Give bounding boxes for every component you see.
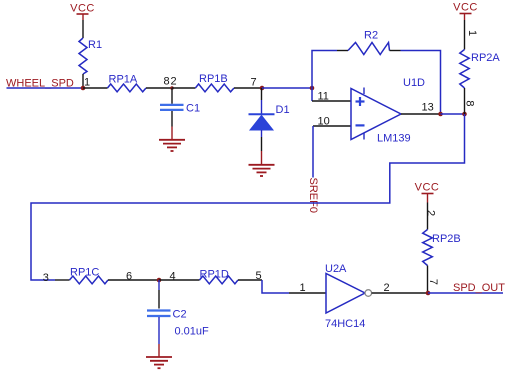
svg-text:R1: R1 [88, 39, 102, 51]
wire node 7 to D1 [261, 88, 263, 114]
wire SPD_OUT [428, 292, 503, 294]
svg-text:10: 10 [318, 116, 330, 128]
wire output to RP2A [441, 113, 465, 115]
ground (D1) [249, 165, 275, 176]
svg-text:VCC: VCC [415, 182, 440, 194]
pin 13 wire [401, 102, 441, 115]
wire C2 to ground [158, 317, 160, 357]
svg-text:U2A: U2A [325, 263, 347, 275]
svg-text:RP1C: RP1C [70, 267, 99, 279]
wire WHEEL_SPD [7, 87, 84, 89]
svg-text:VCC: VCC [70, 3, 95, 15]
svg-text:13: 13 [422, 102, 434, 114]
wire VCC to R1 [82, 20, 84, 38]
wire R2 left leg [312, 51, 337, 102]
wire C1 to ground [171, 111, 173, 140]
pin 2 of RP2B [425, 203, 437, 230]
resistor RP1A [108, 74, 147, 92]
svg-text:RP1D: RP1D [200, 269, 229, 281]
pin 6 wire [108, 271, 159, 283]
resistor RP1C [70, 267, 109, 284]
svg-text:LM139: LM139 [377, 133, 411, 145]
svg-text:4: 4 [170, 271, 176, 283]
ground (C1) [159, 140, 185, 151]
svg-text:74HC14: 74HC14 [325, 318, 365, 330]
pin 7 of RP2B [427, 266, 439, 294]
power VCC (RP2B) [415, 182, 440, 203]
wire D1 to ground [261, 130, 263, 165]
svg-text:RP1B: RP1B [199, 73, 228, 85]
op-amp U1D [351, 77, 425, 145]
svg-text:7: 7 [427, 279, 439, 285]
pin 11 wire [312, 91, 351, 103]
svg-text:SPD_OUT: SPD_OUT [453, 282, 505, 294]
svg-text:C1: C1 [186, 103, 200, 115]
diode D1 [249, 104, 290, 130]
wire step down to inverter input [262, 280, 289, 293]
resistor RP2A [460, 50, 501, 89]
junction node 82 / C1 [170, 86, 174, 90]
wire feedback run to bottom-left [31, 114, 465, 280]
pin 10 wire [313, 116, 351, 128]
pin 1 of RP2A [465, 20, 479, 50]
junction C2 node [157, 278, 162, 283]
resistor R2 [337, 30, 401, 55]
svg-text:7: 7 [251, 77, 257, 89]
pin 4 wire [159, 271, 200, 283]
svg-text:5: 5 [256, 270, 262, 282]
svg-text:11: 11 [318, 91, 329, 103]
svg-text:U1D: U1D [403, 77, 425, 89]
svg-text:8: 8 [463, 100, 475, 106]
svg-text:RP1A: RP1A [109, 74, 138, 86]
svg-text:VCC: VCC [453, 2, 478, 14]
wire to RP1A [83, 87, 108, 89]
resistor R1 [79, 38, 102, 74]
svg-text:D1: D1 [276, 104, 290, 116]
wire R2 right leg [401, 51, 441, 115]
pin 3 wire [43, 272, 70, 284]
wire pin10 to SREF0 [312, 126, 314, 178]
resistor RP2B [423, 230, 461, 266]
pin 1 of R1 [83, 74, 90, 89]
svg-text:1: 1 [466, 30, 478, 36]
svg-text:1: 1 [300, 282, 306, 294]
svg-text:RP2A: RP2A [471, 52, 500, 64]
wire C2 node down [158, 280, 160, 309]
junction at R1 / WHEEL_SPD [81, 86, 86, 91]
svg-text:3: 3 [43, 272, 49, 284]
svg-text:8: 8 [164, 76, 170, 88]
svg-text:2: 2 [425, 210, 437, 216]
svg-text:2: 2 [384, 282, 390, 294]
power VCC (top-right) [453, 2, 478, 21]
capacitor C2 [147, 309, 209, 338]
pin 1 wire of U2A [289, 282, 326, 294]
svg-text:6: 6 [126, 271, 132, 283]
pin 2 wire of U2A [372, 282, 428, 294]
svg-text:1: 1 [84, 77, 90, 89]
wire node 7 to pin 11 node [262, 87, 312, 89]
junction SPD_OUT node [426, 291, 431, 296]
junction RP2A node [462, 112, 467, 117]
svg-text:R2: R2 [364, 30, 378, 42]
resistor RP1D [200, 269, 239, 284]
resistor RP1B [195, 73, 234, 92]
wire node 82 to RP1B [172, 87, 195, 89]
pin 5 wire [238, 270, 262, 282]
wire node to C1 [171, 88, 173, 104]
capacitor C1 [160, 103, 200, 115]
svg-text:C2: C2 [173, 309, 187, 321]
ground (C2) [146, 357, 172, 368]
wire RP1A to node 82 [146, 87, 172, 89]
junction output / R2 [438, 112, 443, 117]
junction node 7 / D1 [260, 86, 265, 91]
junction pin11 node [310, 86, 315, 91]
svg-text:0.01uF: 0.01uF [175, 326, 210, 338]
svg-text:SREF0: SREF0 [307, 178, 319, 213]
inverter U2A [325, 263, 372, 330]
power VCC (top-left) [70, 3, 95, 21]
svg-text:RP2B: RP2B [432, 233, 461, 245]
svg-text:2: 2 [171, 76, 177, 88]
pin 7 wire [234, 77, 262, 89]
pin 8 of RP2A [463, 88, 475, 114]
